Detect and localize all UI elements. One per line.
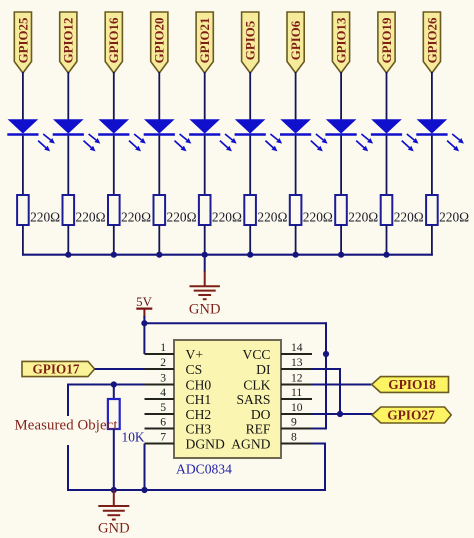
svg-text:3: 3 <box>160 372 166 385</box>
wire LED common ground bus <box>22 254 433 256</box>
resistor 220Ω (column 4) <box>154 195 197 225</box>
wire bus to ground symbol <box>204 255 206 272</box>
junction on ground bus (column 7) <box>293 252 299 258</box>
wire resistor to ground bus <box>340 225 342 256</box>
svg-text:10: 10 <box>291 401 303 414</box>
pin 13 DI <box>256 356 312 377</box>
svg-text:CLK: CLK <box>243 377 270 392</box>
op-amp/IC U1 ADC0834 body <box>174 340 281 458</box>
svg-text:GPIO18: GPIO18 <box>388 377 436 392</box>
wire DGND (pin 7) to ground bus <box>144 444 146 492</box>
pin 2 CS <box>145 356 203 377</box>
svg-text:DGND: DGND <box>186 436 225 451</box>
wire resistor to ground bus <box>67 225 69 256</box>
svg-text:13: 13 <box>291 356 303 369</box>
wire LED cathode to resistor <box>249 136 251 195</box>
svg-text:220Ω: 220Ω <box>348 210 378 225</box>
wire resistor to ground bus <box>113 225 115 256</box>
svg-text:220Ω: 220Ω <box>394 210 424 225</box>
LED D8 <box>325 119 373 151</box>
wire LED cathode to resistor <box>67 136 69 195</box>
wire 10K bottom to ground bus <box>113 429 115 491</box>
wire VCC riser to REF (pin 9) <box>325 354 327 429</box>
pin 14 VCC <box>243 341 312 362</box>
resistor 220Ω (column 9) <box>381 195 424 225</box>
wire GPIO25 to LED anode <box>22 72 24 120</box>
svg-text:220Ω: 220Ω <box>439 210 469 225</box>
junction on ground bus (column 2) <box>65 252 71 258</box>
resistor 220Ω (column 3) <box>108 195 151 225</box>
resistor 220Ω (column 10) <box>426 195 469 225</box>
wire GPIO20 to LED anode <box>158 72 160 120</box>
wire LED cathode to resistor <box>340 136 342 195</box>
wire LED cathode to resistor <box>386 136 388 195</box>
wire measured-object lower stub <box>67 445 69 491</box>
svg-text:CH1: CH1 <box>186 392 212 407</box>
LED D10 <box>416 119 464 151</box>
net label flag GPIO5 <box>242 12 259 73</box>
wire resistor to ground bus <box>158 225 160 256</box>
svg-text:GPIO12: GPIO12 <box>62 18 76 64</box>
ground GND (bottom) <box>98 490 130 537</box>
wire REF (pin 9) to VCC riser <box>311 428 327 430</box>
svg-text:GPIO19: GPIO19 <box>380 18 394 64</box>
pin 4 CH1 <box>145 386 212 407</box>
junction CH0 / 10K resistor <box>111 381 117 387</box>
svg-text:220Ω: 220Ω <box>167 210 197 225</box>
wire GPIO12 to LED anode <box>67 72 69 120</box>
svg-text:GPIO5: GPIO5 <box>244 21 258 60</box>
wire DO (pin 10) to GPIO27 <box>281 413 376 415</box>
junction DI/DO net <box>337 411 343 417</box>
wire GPIO26 to LED anode <box>431 72 433 120</box>
pin 11 SARS <box>236 386 312 407</box>
pin 3 CH0 <box>145 372 212 393</box>
net label flag GPIO6 <box>287 12 304 73</box>
wire LED cathode to resistor <box>204 136 206 195</box>
wire CLK (pin 12) to GPIO18 <box>281 384 373 386</box>
wire GPIO13 to LED anode <box>340 72 342 120</box>
svg-text:1: 1 <box>160 341 166 354</box>
wire DI (pin 13) to DO net <box>281 368 340 370</box>
net label flag GPIO18 <box>372 377 449 393</box>
svg-text:220Ω: 220Ω <box>30 210 60 225</box>
svg-text:GPIO27: GPIO27 <box>387 408 435 423</box>
svg-text:7: 7 <box>160 431 166 444</box>
junction ground bus / 10K <box>111 487 117 493</box>
svg-text:2: 2 <box>160 356 166 369</box>
svg-text:4: 4 <box>160 386 166 399</box>
power 5V <box>136 295 152 318</box>
junction on ground bus (column 3) <box>111 252 117 258</box>
junction on ground bus (column 4) <box>156 252 162 258</box>
net label flag GPIO16 <box>105 12 122 73</box>
junction on ground bus (column 8) <box>338 252 344 258</box>
pin 7 DGND <box>145 431 225 452</box>
LED D1 <box>7 119 55 151</box>
svg-text:GPIO16: GPIO16 <box>107 17 121 63</box>
resistor 220Ω (column 6) <box>244 195 287 225</box>
net label flag GPIO26 <box>423 12 440 73</box>
pin 9 REF <box>246 416 312 437</box>
LED D2 <box>53 119 101 151</box>
pin 10 DO <box>251 401 312 422</box>
svg-text:GPIO20: GPIO20 <box>153 18 167 64</box>
net label flag GPIO17 <box>22 361 95 376</box>
resistor 220Ω (column 1) <box>17 195 60 225</box>
svg-text:ADC0834: ADC0834 <box>176 462 232 477</box>
svg-text:GND: GND <box>189 302 221 318</box>
wire LED cathode to resistor <box>158 136 160 195</box>
net label flag GPIO20 <box>151 12 168 73</box>
svg-text:220Ω: 220Ω <box>76 210 106 225</box>
LED D7 <box>280 119 328 151</box>
net label flag GPIO13 <box>332 12 349 73</box>
wire LED cathode to resistor <box>22 136 24 195</box>
wire resistor to ground bus <box>386 225 388 256</box>
svg-text:CH2: CH2 <box>186 407 212 422</box>
wire GPIO21 to LED anode <box>204 72 206 120</box>
wire LED cathode to resistor <box>295 136 297 195</box>
wire GPIO6 to LED anode <box>295 72 297 120</box>
resistor 220Ω (column 7) <box>290 195 333 225</box>
wire measured-object upper stub <box>67 384 69 417</box>
wire resistor to ground bus <box>22 225 24 256</box>
svg-text:Measured Object: Measured Object <box>15 418 119 434</box>
svg-text:GPIO25: GPIO25 <box>16 18 30 64</box>
LED D9 <box>371 119 419 151</box>
wire 5V rail to VCC/REF riser <box>144 322 326 324</box>
pin 12 CLK <box>243 372 312 393</box>
svg-text:11: 11 <box>291 386 302 399</box>
svg-text:5: 5 <box>160 401 166 414</box>
svg-text:8: 8 <box>291 431 297 444</box>
ground GND (top) <box>189 271 221 318</box>
LED D6 <box>235 119 283 151</box>
svg-text:DI: DI <box>256 362 271 377</box>
svg-text:10K: 10K <box>122 430 145 445</box>
net label flag GPIO19 <box>378 12 395 73</box>
svg-text:220Ω: 220Ω <box>303 210 333 225</box>
wire bottom ground bus <box>67 489 325 491</box>
resistor R 10K <box>108 399 145 445</box>
svg-text:GND: GND <box>98 521 130 537</box>
junction ground bus / DGND <box>141 487 147 493</box>
svg-text:220Ω: 220Ω <box>212 210 242 225</box>
svg-text:CS: CS <box>186 362 203 377</box>
pin 1 V+ <box>145 341 203 362</box>
pin 8 AGND <box>231 431 312 452</box>
wire 5V to V+ (pin 1) <box>143 316 145 354</box>
svg-text:CH3: CH3 <box>186 421 212 436</box>
svg-text:6: 6 <box>160 416 166 429</box>
net label flag GPIO25 <box>14 12 31 73</box>
wire resistor to ground bus <box>204 225 206 256</box>
wire resistor to ground bus <box>249 225 251 256</box>
wire LED cathode to resistor <box>113 136 115 195</box>
net label flag GPIO27 <box>372 407 451 423</box>
svg-text:REF: REF <box>246 421 271 436</box>
svg-text:GPIO17: GPIO17 <box>33 362 80 377</box>
wire resistor to ground bus <box>431 225 433 256</box>
wire AGND (pin 8) horizontal <box>311 443 326 445</box>
resistor 220Ω (column 2) <box>63 195 106 225</box>
svg-text:9: 9 <box>291 416 297 429</box>
svg-text:CH0: CH0 <box>186 377 212 392</box>
wire CH0 (pin 3) net <box>68 384 174 386</box>
resistor 220Ω (column 8) <box>335 195 378 225</box>
pin 6 CH3 <box>145 416 212 437</box>
wire LED cathode to resistor <box>431 136 433 195</box>
wire GPIO19 to LED anode <box>386 72 388 120</box>
resistor 220Ω (column 5) <box>199 195 242 225</box>
svg-text:GPIO21: GPIO21 <box>198 18 212 64</box>
pin 5 CH2 <box>145 401 212 422</box>
LED D3 <box>98 119 146 151</box>
net label flag GPIO12 <box>60 12 77 73</box>
svg-text:SARS: SARS <box>236 392 270 407</box>
svg-text:DO: DO <box>251 407 271 422</box>
wire GPIO16 to LED anode <box>113 72 115 120</box>
svg-text:220Ω: 220Ω <box>257 210 287 225</box>
wire AGND (pin 8) to ground bus <box>324 444 326 492</box>
junction 5V node <box>141 320 147 326</box>
junction on ground bus (column 6) <box>247 252 253 258</box>
svg-text:VCC: VCC <box>243 347 271 362</box>
wire GPIO5 to LED anode <box>249 72 251 120</box>
svg-text:AGND: AGND <box>231 436 270 451</box>
svg-text:V+: V+ <box>186 347 203 362</box>
junction VCC pin 14 <box>323 351 329 357</box>
wire GPIO17 to CS (pin 2) <box>95 368 174 370</box>
svg-text:12: 12 <box>291 372 303 385</box>
svg-text:GPIO13: GPIO13 <box>335 18 349 64</box>
svg-text:GPIO26: GPIO26 <box>425 17 439 63</box>
svg-text:GPIO6: GPIO6 <box>289 20 303 60</box>
net label flag GPIO21 <box>196 12 213 73</box>
svg-text:14: 14 <box>291 341 303 354</box>
LED D4 <box>144 119 192 151</box>
svg-text:220Ω: 220Ω <box>121 210 151 225</box>
wire resistor to ground bus <box>295 225 297 256</box>
junction on ground bus (column 9) <box>383 252 389 258</box>
svg-text:5V: 5V <box>136 295 152 309</box>
wire 10K top <box>113 385 115 400</box>
junction on ground bus (column 5) <box>202 252 208 258</box>
LED D5 <box>189 119 237 151</box>
